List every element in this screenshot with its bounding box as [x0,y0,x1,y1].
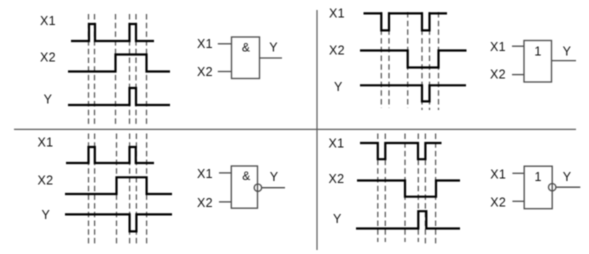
svg-text:X1: X1 [40,14,56,28]
svg-text:1: 1 [535,170,542,184]
svg-text:X2: X2 [490,196,506,210]
svg-text:Y: Y [269,41,278,55]
svg-text:X1: X1 [38,136,54,150]
svg-text:&: & [242,169,250,183]
svg-text:Y: Y [42,208,51,222]
svg-text:Y: Y [270,170,279,184]
svg-text:X2: X2 [490,68,506,82]
svg-text:X1: X1 [197,37,213,51]
svg-text:X2: X2 [329,172,345,186]
svg-text:X1: X1 [329,137,345,151]
svg-text:X2: X2 [197,65,213,79]
svg-text:Y: Y [44,92,53,106]
svg-text:X2: X2 [197,196,213,210]
svg-text:1: 1 [534,45,541,59]
svg-text:X2: X2 [40,50,56,64]
svg-text:X1: X1 [490,168,506,182]
svg-text:X1: X1 [490,40,506,54]
svg-text:X1: X1 [197,167,213,181]
svg-text:Y: Y [333,212,342,226]
svg-text:Y: Y [563,44,572,58]
svg-text:Y: Y [563,170,572,184]
svg-text:X2: X2 [329,44,345,58]
svg-text:X1: X1 [329,7,345,21]
svg-text:X2: X2 [38,174,54,188]
svg-text:&: & [242,41,250,55]
svg-text:Y: Y [334,80,343,94]
